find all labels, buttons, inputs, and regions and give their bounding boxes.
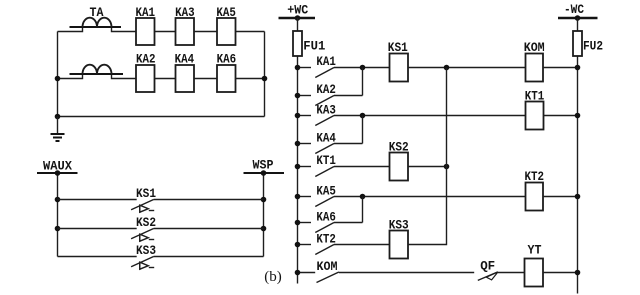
relay coil KA6 <box>217 65 236 92</box>
svg-text:KA4: KA4 <box>175 52 195 67</box>
wire row2 segments <box>58 74 265 79</box>
svg-text:KA4: KA4 <box>316 130 336 145</box>
wire left rail <box>297 18 299 284</box>
junction dot right rail row3 <box>575 113 581 119</box>
svg-text:WSP: WSP <box>253 157 274 172</box>
contact KS2 <box>58 229 264 242</box>
svg-text:-WC: -WC <box>564 2 584 17</box>
svg-text:KT2: KT2 <box>316 231 336 246</box>
contact KA1 <box>298 68 390 78</box>
junction dot row KA4 rail <box>295 141 301 147</box>
svg-text:KA6: KA6 <box>217 52 237 67</box>
wire right rail <box>577 18 579 294</box>
wire row1 segments <box>58 27 265 32</box>
relay coil KA4 <box>176 65 195 92</box>
svg-text:KT1: KT1 <box>525 89 545 104</box>
wire WSP vertical <box>263 173 265 257</box>
junction dot KA5-KA6 merge <box>360 194 366 200</box>
svg-text:KS3: KS3 <box>389 217 409 232</box>
bus WSP <box>244 172 285 174</box>
junction dot WAUX <box>55 170 61 176</box>
svg-text:YT: YT <box>528 243 542 258</box>
wire KS1 to KOM <box>408 67 526 69</box>
contact KA2 <box>298 96 363 106</box>
contact KOM <box>298 272 475 283</box>
relay coil KA1 <box>136 18 155 45</box>
wire KA6 merge vertical <box>362 197 364 223</box>
svg-text:KT1: KT1 <box>316 153 336 168</box>
wire left vertical of CT block <box>57 32 59 117</box>
relay coil KT1 <box>526 102 544 130</box>
wire bottom of CT block <box>58 116 265 118</box>
contact KA6 <box>298 223 363 233</box>
svg-text:KA3: KA3 <box>175 5 195 20</box>
svg-text:QF: QF <box>480 258 495 273</box>
junction dot right rail row6 <box>575 194 581 200</box>
relay coil KA2 <box>136 65 155 92</box>
junction dot bottom left <box>55 114 61 120</box>
contact KS1 <box>58 200 264 213</box>
relay coil KA5 <box>217 18 236 45</box>
ground <box>51 117 65 142</box>
junction dot KS1 row right <box>261 197 267 203</box>
junction dot row KA5 rail <box>295 194 301 200</box>
svg-text:KS1: KS1 <box>136 186 156 201</box>
junction dot row2 left <box>55 76 61 82</box>
junction dot KS2 row left <box>55 226 61 232</box>
relay coil KS1 <box>390 54 409 82</box>
fuse FU1 <box>293 31 302 56</box>
contact KT2 <box>298 245 390 255</box>
junction dot row KOM rail <box>295 270 301 276</box>
junction dot right rail YT row <box>575 270 581 276</box>
junction dot node A <box>444 65 450 71</box>
fuse FU2 <box>573 31 582 56</box>
relay coil KOM <box>526 54 544 82</box>
contact KA3 <box>298 116 526 126</box>
svg-text:KS2: KS2 <box>389 139 409 154</box>
svg-text:KT2: KT2 <box>524 169 544 184</box>
wire KA2 merge vertical <box>362 68 364 96</box>
junction dot -WC <box>575 15 581 21</box>
svg-text:FU1: FU1 <box>303 39 325 54</box>
current transformer TA winding 2 <box>70 65 124 74</box>
junction dot row KA1 rail <box>295 65 301 71</box>
contact QF <box>478 272 525 281</box>
junction dot row2 right <box>262 76 268 82</box>
wire right vertical of CT block <box>264 32 266 117</box>
svg-text:(b): (b) <box>264 269 282 285</box>
svg-text:KA3: KA3 <box>316 102 336 117</box>
svg-text:KOM: KOM <box>317 259 338 274</box>
current transformer TA winding 1 <box>70 18 122 27</box>
bus WAUX <box>37 172 78 174</box>
relay coil KS2 <box>390 153 409 181</box>
svg-text:TA: TA <box>90 5 104 20</box>
svg-text:KOM: KOM <box>524 40 545 55</box>
junction dot row KA6 rail <box>295 220 301 226</box>
junction dot +WC <box>295 15 301 21</box>
relay coil KS3 <box>390 231 409 259</box>
junction dot KA1-KA2 merge <box>360 65 366 71</box>
bus +WC <box>279 17 316 20</box>
svg-text:KA6: KA6 <box>316 209 336 224</box>
svg-text:KS1: KS1 <box>388 40 408 55</box>
contact KT1 <box>298 167 390 177</box>
svg-text:+WC: +WC <box>287 2 308 17</box>
junction dot KS2 node <box>444 164 450 170</box>
wire KOM to right rail <box>543 67 578 69</box>
junction dot row KT2 rail <box>295 242 301 248</box>
junction dot row KA3 rail <box>295 113 301 119</box>
wire KS2 to node <box>408 166 447 168</box>
wire YT to right rail <box>543 272 578 274</box>
junction dot KA3-KA4 merge <box>360 113 366 119</box>
svg-text:KA1: KA1 <box>316 54 336 69</box>
svg-text:FU2: FU2 <box>583 39 603 54</box>
relay coil KA3 <box>176 18 195 45</box>
contact KS3 <box>58 257 264 270</box>
wire KT2 to right rail <box>543 196 578 198</box>
svg-text:KA2: KA2 <box>136 52 156 67</box>
contact KA4 <box>298 144 363 154</box>
junction dot row KA2 rail <box>295 93 301 99</box>
trip coil YT <box>525 259 544 287</box>
junction dot right rail row1 <box>575 65 581 71</box>
bus -WC <box>558 17 598 20</box>
wire KT1 to right rail <box>544 115 578 117</box>
junction dot WSP <box>261 170 267 176</box>
junction dot KS2 row right <box>261 226 267 232</box>
svg-text:KA1: KA1 <box>136 5 156 20</box>
wire KA4 merge vertical <box>362 116 364 144</box>
wire KS3 to node vertical <box>408 68 447 245</box>
contact KA5 <box>298 197 526 207</box>
svg-text:KS2: KS2 <box>136 215 156 230</box>
junction dot KS1 row left <box>55 197 61 203</box>
relay coil KT2 <box>526 183 544 211</box>
junction dot row KT1 rail <box>295 164 301 170</box>
svg-text:KA2: KA2 <box>316 82 336 97</box>
wire WAUX vertical <box>57 173 59 257</box>
svg-text:KS3: KS3 <box>136 243 156 258</box>
svg-text:KA5: KA5 <box>216 5 236 20</box>
svg-text:KA5: KA5 <box>316 183 336 198</box>
